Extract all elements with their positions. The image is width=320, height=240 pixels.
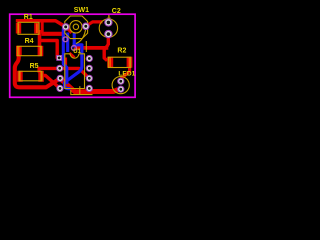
svg-text:R5: R5: [30, 63, 39, 70]
svg-text:R2: R2: [117, 48, 126, 55]
svg-text:LED1: LED1: [118, 71, 135, 78]
svg-text:U1: U1: [73, 49, 81, 55]
svg-text:R1: R1: [24, 14, 33, 21]
svg-text:C2: C2: [112, 8, 121, 15]
svg-text:SW1: SW1: [74, 7, 89, 14]
svg-text:R4: R4: [25, 38, 34, 45]
